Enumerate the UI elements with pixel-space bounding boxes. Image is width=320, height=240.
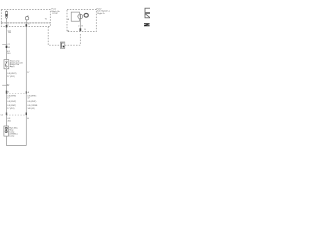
svg-text:Right Fr: Right Fr [97,12,105,15]
svg-text:Lamp: Lamp [9,135,15,137]
svg-text:C2: C2 [7,44,9,46]
svg-text:Appl): Appl) [10,65,15,68]
svg-text:STOP: STOP [52,13,58,15]
svg-text:17: 17 [7,97,9,99]
svg-text:0.8 (WHT): 0.8 (WHT) [7,73,17,75]
svg-text:17: 17 [28,97,30,99]
wire label below C2 [8,118,12,122]
wire label above stop lamp switch [7,51,11,55]
terminal loop on right wire [25,15,28,20]
stop lamp switch box [4,60,9,69]
dashed branch wire to headlamp [48,27,80,46]
fuse F1 [5,11,7,19]
svg-text:17 (451): 17 (451) [7,76,15,78]
svg-text:0.8 (WHT): 0.8 (WHT) [7,105,16,107]
ground return wire bottom [7,136,27,145]
svg-text:2: 2 [78,25,79,27]
wire label 0.8 ORN 140 (left wire upper) [8,30,12,34]
wire labels above C2 connector [7,105,38,110]
right wire (stop fuse feed) [25,20,27,146]
svg-text:0.8 (WHT): 0.8 (WHT) [28,101,37,103]
svg-text:17 (451): 17 (451) [7,108,14,110]
pin terminal mark left wire at connector strip [6,24,10,27]
inline connector symbol on dashed branch [60,42,64,48]
lower component label [9,127,18,137]
toolbar icon: bold Z mark [144,23,150,26]
toolbar icon: square [145,8,151,12]
fuse block dashed box (underhood electrical center) [1,10,50,23]
connector strip below fuse block [1,23,50,27]
svg-text:140 (45): 140 (45) [28,108,35,110]
left wire (fuse output) [6,18,8,59]
wire label below switch [7,73,17,78]
bulb 2 (side view ring) [84,13,88,17]
bulb (circle with filament) [78,14,83,19]
headlamp connector pin mark [80,28,87,31]
headlamp assembly label [97,7,111,14]
fuse block label text [52,9,61,15]
svg-text:C2: C2 [1,115,3,117]
headlamp wire [79,19,81,32]
svg-text:0.8 (ORN/B: 0.8 (ORN/B [28,105,39,107]
svg-text:S3: S3 [8,47,10,49]
pin terminal mark right wire at connector strip [26,23,31,26]
headlamp assembly dashed box [67,10,96,32]
splice S204 on left wire [2,84,9,86]
wire labels below C100 (both wires) [7,96,36,103]
stop lamp switch label [10,60,23,68]
svg-text:S2: S2 [7,84,9,86]
pin labels inside headlamp box [68,18,84,33]
lamp housing rectangle [71,12,80,21]
trailer connector box (lower component) [4,126,9,136]
left wire below switch [6,69,8,126]
inline connector C2 (dashed line between wires) [1,113,30,120]
in-line connector on left wire [2,44,10,49]
svg-text:0.8 (WHT): 0.8 (WHT) [7,101,16,103]
toolbar icon: square with diagonal [145,14,151,18]
inline connector C100 (dashed line between wires) [6,91,30,94]
